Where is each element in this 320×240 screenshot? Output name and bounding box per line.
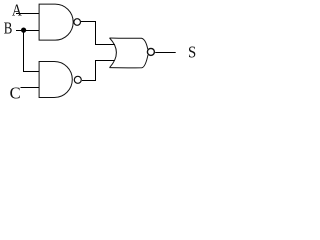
svg-text:A: A bbox=[12, 0, 22, 19]
svg-text:C: C bbox=[10, 83, 21, 101]
svg-text:S: S bbox=[188, 42, 196, 61]
svg-text:B: B bbox=[4, 18, 13, 37]
